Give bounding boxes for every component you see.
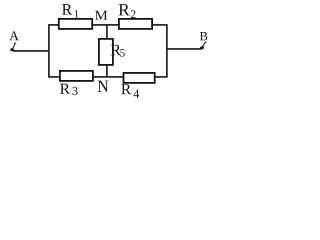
label R2 - R: [119, 4, 130, 15]
label R5 - subscript 5: [120, 49, 124, 56]
label R3 - subscript 3: [72, 87, 77, 95]
label R3 - R: [60, 84, 70, 94]
wire: lead from right node to terminal B: [167, 48, 202, 50]
terminal B (dot with pigtail): [200, 42, 206, 50]
node label A: [9, 31, 18, 40]
label R4 - subscript 4: [133, 90, 139, 98]
terminal A (dot with pigtail): [10, 43, 15, 51]
node label B: [200, 32, 207, 40]
node label M: [95, 11, 107, 20]
resistor R1: [59, 19, 92, 29]
label R5 - R: [111, 45, 121, 55]
label R1 - subscript 1: [75, 10, 79, 17]
node label N: [98, 81, 109, 92]
resistor R2: [119, 19, 152, 29]
wire: lead from terminal A to left node: [13, 50, 49, 52]
label R4 - R: [121, 84, 131, 94]
resistor R4: [124, 73, 155, 83]
resistor R3: [60, 71, 93, 81]
label R1 - R: [62, 4, 72, 14]
resistor R5: [99, 39, 113, 65]
label R2 - subscript 2: [131, 10, 136, 18]
wire: outer bridge loop (top rail, right vertical, bottom rail, left vertical): [49, 25, 167, 77]
wire: middle branch M to N through R5: [106, 25, 108, 77]
